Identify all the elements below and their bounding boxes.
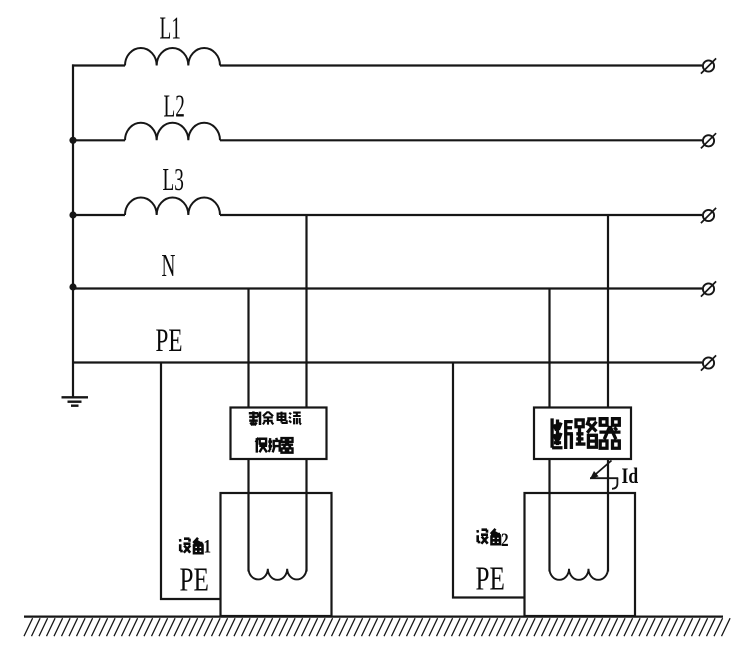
junction dot N (69, 283, 76, 290)
earth ground line (24, 615, 723, 617)
wire breaker left output to device2 coil (548, 459, 550, 572)
wire left supply bus vertical (72, 64, 74, 396)
junction dot L3 (69, 211, 76, 218)
wire PE tap to device1 (vertical) (160, 363, 162, 601)
label 设备2 (477, 529, 509, 551)
label 设备1 (179, 536, 211, 557)
label 保护器 (RCD text line 2) (256, 438, 293, 453)
svg-text:PE: PE (476, 560, 505, 598)
device 2 box (525, 493, 636, 616)
wire N line (72, 287, 702, 289)
wire RCD right output to device1 coil (305, 459, 307, 572)
wire RCD left output to device1 coil (247, 459, 249, 572)
wire PE line (72, 361, 702, 363)
terminal symbol PE (circle with slash) (701, 355, 716, 370)
wire PE tap to device2 (horizontal) (452, 596, 526, 598)
wire L3 line right segment (220, 214, 702, 216)
junction dot L2 (69, 137, 76, 144)
inductor coil L2 (125, 123, 220, 141)
device 1 box (221, 493, 332, 616)
inductor coil L1 (125, 48, 220, 66)
label 剩余电流 (RCD text line 1) (249, 411, 301, 425)
wire PE tap to device2 (vertical) (452, 363, 454, 599)
wire L1 line right segment (220, 64, 702, 66)
device 2 winding coil (550, 569, 609, 580)
label 断路器 (circuit breaker text) (552, 418, 620, 449)
wire L2 line right segment (220, 139, 702, 141)
circuit breaker box (534, 408, 631, 460)
wire L1 line left segment (72, 64, 125, 66)
inductor coil L3 (125, 197, 220, 215)
wire L3 line left segment (72, 214, 125, 216)
svg-text:N: N (162, 247, 176, 283)
svg-text:L3: L3 (163, 161, 184, 197)
wire PE tap to device1 (horizontal) (160, 598, 222, 600)
earth hatching (24, 618, 730, 636)
svg-text:Id: Id (622, 464, 639, 488)
wire tap L3 to breaker right input (607, 215, 609, 408)
terminal symbol N (circle with slash) (701, 281, 716, 296)
wire tap L3 to RCD right input (305, 215, 307, 408)
svg-text:L2: L2 (164, 87, 185, 123)
svg-text:2: 2 (501, 529, 509, 550)
wire tap N to RCD left input (247, 289, 249, 408)
fault current arrow Id (590, 461, 618, 489)
svg-text:1: 1 (204, 536, 212, 557)
wire tap N to breaker left input (548, 289, 550, 408)
terminal symbol L2 (circle with slash) (701, 133, 716, 148)
wire breaker right output to device2 coil (607, 459, 609, 572)
RCD box (residual current protector) (231, 408, 327, 460)
wire L2 line left segment (72, 139, 125, 141)
terminal symbol L1 (circle with slash) (701, 58, 716, 73)
svg-text:PE: PE (180, 561, 209, 599)
svg-text:L1: L1 (160, 10, 181, 46)
terminal symbol L3 (circle with slash) (701, 208, 716, 223)
device 1 winding coil (249, 569, 307, 580)
svg-text:PE: PE (156, 323, 183, 359)
ground symbol (source earth) (62, 397, 89, 405)
